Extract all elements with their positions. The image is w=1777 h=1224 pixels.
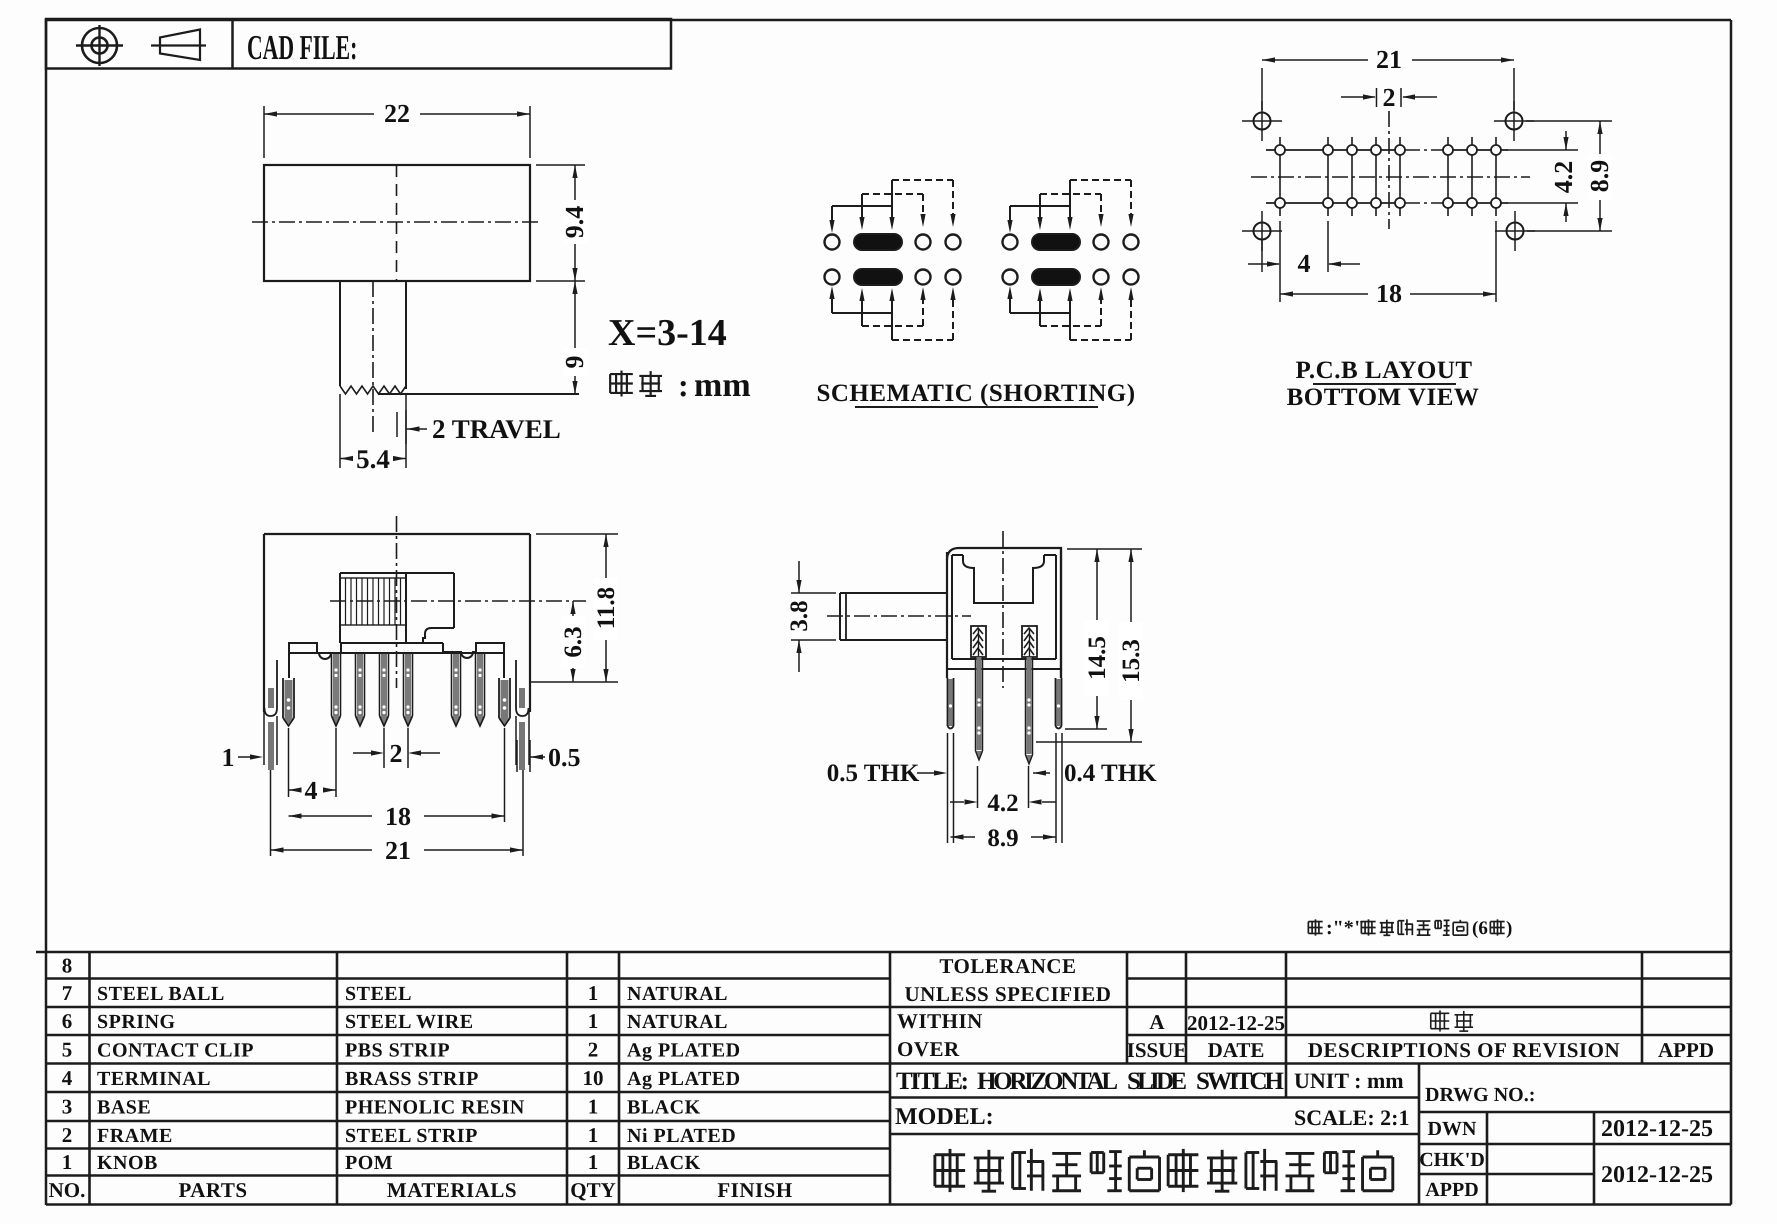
svg-text:6: 6 [62, 1009, 73, 1033]
svg-text:1: 1 [62, 1150, 73, 1174]
svg-text:P.C.B LAYOUT: P.C.B LAYOUT [1295, 357, 1472, 384]
svg-text:BLACK: BLACK [627, 1097, 701, 1119]
svg-text:14.5: 14.5 [1084, 636, 1111, 680]
svg-text:TERMINAL: TERMINAL [97, 1068, 211, 1090]
svg-text:BOTTOM VIEW: BOTTOM VIEW [1287, 384, 1480, 411]
svg-text:APPD: APPD [1658, 1038, 1714, 1062]
svg-text:0.5 THK: 0.5 THK [827, 760, 920, 787]
svg-text:8.9: 8.9 [1585, 160, 1614, 193]
svg-text:FINISH: FINISH [717, 1178, 792, 1202]
svg-text:2: 2 [62, 1123, 73, 1147]
svg-text:POM: POM [345, 1152, 393, 1174]
svg-text:1: 1 [222, 743, 235, 772]
svg-text:22: 22 [384, 99, 410, 128]
svg-text:7: 7 [62, 981, 73, 1005]
svg-text:10: 10 [583, 1066, 604, 1090]
svg-text:5.4: 5.4 [356, 444, 390, 474]
svg-text:NATURAL: NATURAL [627, 983, 728, 1005]
svg-text:SLIDE: SLIDE [1127, 1068, 1187, 1095]
svg-text:2012-12-25: 2012-12-25 [1187, 1011, 1285, 1035]
svg-text:): ) [1506, 918, 1512, 939]
svg-text:DESCRIPTIONS OF REVISION: DESCRIPTIONS OF REVISION [1308, 1038, 1620, 1062]
svg-text:NATURAL: NATURAL [627, 1011, 728, 1033]
svg-text:DWN: DWN [1428, 1118, 1477, 1140]
svg-text:ISSUE: ISSUE [1127, 1038, 1188, 1062]
svg-text:DRWG NO.:: DRWG NO.: [1425, 1084, 1535, 1106]
svg-text:QTY: QTY [570, 1178, 616, 1202]
svg-text:TOLERANCE: TOLERANCE [939, 954, 1076, 978]
svg-text:STEEL BALL: STEEL BALL [97, 983, 225, 1005]
svg-text:(6: (6 [1472, 918, 1488, 939]
svg-text:Ag PLATED: Ag PLATED [627, 1039, 741, 1061]
svg-text:FRAME: FRAME [97, 1125, 173, 1147]
svg-text:21: 21 [385, 836, 411, 865]
svg-text:CHK'D: CHK'D [1419, 1149, 1485, 1171]
svg-text:21: 21 [1376, 45, 1402, 74]
svg-text:UNIT : mm: UNIT : mm [1294, 1068, 1404, 1093]
svg-text:PHENOLIC RESIN: PHENOLIC RESIN [345, 1097, 525, 1119]
svg-text:CAD FILE:: CAD FILE: [247, 28, 357, 67]
svg-text:2: 2 [390, 739, 403, 768]
svg-text:1: 1 [588, 1095, 599, 1119]
svg-text:9: 9 [560, 356, 589, 369]
svg-text:0.4 THK: 0.4 THK [1064, 760, 1157, 787]
svg-text:6.3: 6.3 [560, 626, 587, 657]
svg-text:A: A [1149, 1010, 1165, 1034]
svg-text:3: 3 [62, 1095, 73, 1119]
svg-text:PBS STRIP: PBS STRIP [345, 1039, 450, 1061]
svg-text:4.2: 4.2 [987, 790, 1018, 817]
svg-text:MODEL:: MODEL: [895, 1104, 994, 1130]
svg-text:SCHEMATIC (SHORTING): SCHEMATIC (SHORTING) [816, 380, 1135, 407]
svg-text:1: 1 [588, 1123, 599, 1147]
svg-text:3.8: 3.8 [786, 600, 813, 631]
svg-text:1: 1 [588, 981, 599, 1005]
svg-text:KNOB: KNOB [97, 1152, 158, 1174]
svg-text:4: 4 [1298, 249, 1311, 278]
svg-text:PARTS: PARTS [178, 1178, 247, 1202]
svg-text:STEEL STRIP: STEEL STRIP [345, 1125, 478, 1147]
svg-text:X=3-14: X=3-14 [608, 312, 727, 354]
svg-text:BLACK: BLACK [627, 1152, 701, 1174]
svg-text:2 TRAVEL: 2 TRAVEL [432, 414, 561, 444]
svg-text:TITLE:: TITLE: [896, 1068, 969, 1095]
svg-text:8.9: 8.9 [987, 825, 1018, 852]
svg-text:Ag PLATED: Ag PLATED [627, 1068, 741, 1090]
svg-text:OVER: OVER [897, 1037, 960, 1061]
svg-text:UNLESS SPECIFIED: UNLESS SPECIFIED [905, 982, 1112, 1006]
svg-text:11.8: 11.8 [593, 587, 620, 629]
svg-text:SPRING: SPRING [97, 1011, 176, 1033]
svg-text:2012-12-25: 2012-12-25 [1601, 1116, 1713, 1142]
svg-text:WITHIN: WITHIN [897, 1009, 983, 1033]
svg-text:18: 18 [385, 802, 411, 831]
svg-text:8: 8 [62, 953, 73, 977]
svg-text::"*": :"*" [1326, 917, 1365, 939]
svg-text:1: 1 [588, 1150, 599, 1174]
svg-text:BRASS STRIP: BRASS STRIP [345, 1068, 479, 1090]
svg-text:4: 4 [305, 776, 318, 805]
svg-text:BASE: BASE [97, 1097, 151, 1119]
svg-text:CONTACT CLIP: CONTACT CLIP [97, 1039, 254, 1061]
svg-text:APPD: APPD [1425, 1179, 1478, 1201]
svg-text:2: 2 [1383, 83, 1396, 112]
svg-text:DATE: DATE [1208, 1038, 1265, 1062]
svg-text:SCALE: 2:1: SCALE: 2:1 [1294, 1105, 1410, 1130]
svg-text:HORIZONTAL: HORIZONTAL [977, 1068, 1118, 1095]
svg-text:4: 4 [62, 1066, 73, 1090]
svg-text:9.4: 9.4 [560, 206, 589, 239]
svg-text:2: 2 [588, 1037, 599, 1061]
svg-text:4.2: 4.2 [1549, 161, 1578, 194]
svg-text:mm: mm [694, 367, 751, 404]
svg-text:18: 18 [1376, 279, 1402, 308]
svg-text:15.3: 15.3 [1118, 639, 1145, 683]
svg-text:STEEL: STEEL [345, 983, 412, 1005]
svg-text:SWITCH: SWITCH [1196, 1068, 1285, 1095]
svg-text:2012-12-25: 2012-12-25 [1601, 1162, 1713, 1188]
svg-text:Ni PLATED: Ni PLATED [627, 1125, 736, 1147]
svg-text:0.5: 0.5 [548, 743, 581, 772]
svg-text:STEEL WIRE: STEEL WIRE [345, 1011, 474, 1033]
svg-text:5: 5 [62, 1037, 73, 1061]
svg-text::: : [678, 367, 689, 403]
svg-text:NO.: NO. [49, 1178, 86, 1202]
svg-text:MATERIALS: MATERIALS [387, 1178, 517, 1202]
svg-text:1: 1 [588, 1009, 599, 1033]
